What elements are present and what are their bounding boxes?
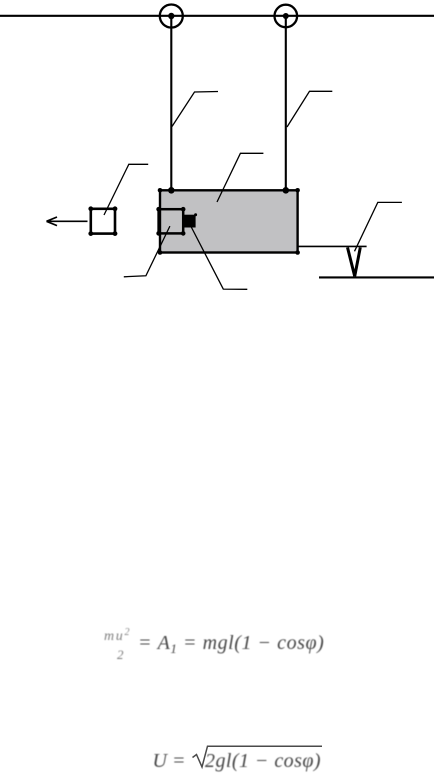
velocity arrow: [47, 217, 88, 226]
string right: [285, 16, 287, 190]
leader to bullet: [191, 227, 247, 290]
string attachment dot right: [283, 187, 290, 194]
equation 2 radicand: 2gl(1 - cos phi): [205, 750, 321, 773]
block: [160, 190, 298, 252]
catcher square inside block: [156, 207, 185, 236]
leader to wedge: [355, 202, 402, 251]
floor line: [319, 276, 434, 278]
projectile square (bullet before impact): [88, 206, 117, 236]
equation 2 left part: U =: [153, 750, 186, 773]
table line from block: [298, 245, 367, 247]
pulley circle left: [160, 5, 183, 28]
leader to right string: [287, 91, 332, 127]
equation 1 fraction denominator 2: [117, 647, 124, 663]
ceiling line: [0, 15, 434, 17]
leader to projectile square: [104, 164, 148, 215]
equation 1 main: = A1 = mgl(1 - cos phi): [138, 632, 324, 657]
wedge support V: [348, 247, 361, 276]
leader to left string: [172, 92, 218, 127]
equation 1 fraction numerator mu^2: [104, 627, 131, 645]
block corner dots: [158, 188, 300, 255]
bullet embedded in block: [184, 213, 198, 227]
string attachment dot left: [168, 187, 175, 194]
pulley circle right: [275, 5, 298, 28]
leader to block: [217, 153, 263, 202]
leader to catcher: [124, 226, 170, 277]
string left: [170, 16, 172, 190]
